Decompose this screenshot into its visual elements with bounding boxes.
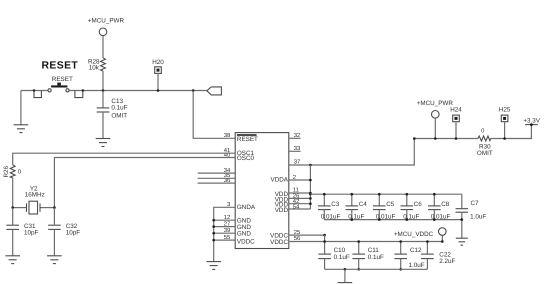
resistor R26 [3,165,22,208]
wire pin 36 stub [198,182,236,184]
power +MCU_PWR [88,17,125,58]
capacitor C5 [373,193,396,221]
svg-text:C12: C12 [410,247,422,254]
wire crystal right [40,207,54,209]
wire OSC1 pin 41 [13,153,236,165]
wire pin 39 stub [214,232,236,234]
node junction gnd bus 39 [212,232,215,235]
svg-text:OSC0: OSC0 [237,155,255,162]
svg-text:1.0uF: 1.0uF [470,213,486,220]
power +MCU_VDDC [394,228,446,243]
mounting hole H20 [152,59,164,91]
capacitor C6 [401,193,423,221]
wire crystal left [13,207,27,209]
wire power rail right [491,125,532,139]
svg-text:0.1uF: 0.1uF [334,254,350,261]
capacitor C13 [97,91,128,139]
ground [96,139,111,147]
wire pin 11 stub [289,192,311,194]
node junction bus pin26 [309,197,312,200]
wire pin 32 stub [289,137,301,139]
wire cap rail top [310,193,461,195]
svg-text:0.01uF: 0.01uF [321,213,341,220]
node junction crystal left [11,206,14,209]
capacitor C11 [352,240,384,270]
node junction gnd bus 55 [212,239,215,242]
svg-text:H20: H20 [152,59,164,66]
svg-text:VDD: VDD [275,207,289,214]
node junction bus pin2 [309,179,312,182]
node junction rail corner [413,137,416,140]
ground [47,256,62,264]
wire reset net horizontal [21,90,48,92]
connector tag RESET net [207,87,222,95]
capacitor C10 [318,235,350,269]
svg-text:RESET: RESET [42,60,79,71]
resistor R28 [88,58,105,91]
wire pin 2 stub [289,179,311,181]
node junction reset branch [192,89,195,92]
node junction bus top [309,164,312,167]
capacitor C8 [428,193,451,221]
ground [456,238,468,245]
wire pin 35 stub [198,177,236,179]
wire GNDA pin 3 [214,207,236,261]
wire reset to pin 38 [193,91,235,139]
wire OSC0 pin 40 [54,158,235,208]
svg-text:10k: 10k [89,64,100,71]
wire ground drop [344,269,346,282]
wire pin 55 stub [214,239,236,241]
wire pin 25 stub [289,234,325,236]
node junction bus pin42 [309,202,312,205]
node junction bus pin11 [309,192,312,195]
svg-text:C7: C7 [471,200,480,207]
svg-text:RESET: RESET [52,76,73,83]
svg-text:10pF: 10pF [24,230,39,237]
power +MCU_PWR [417,100,454,140]
svg-text:0.1uF: 0.1uF [368,254,384,261]
capacitor C4 [346,193,368,221]
capacitor C12 [394,240,424,270]
svg-text:C5: C5 [386,201,395,208]
svg-text:2.2uF: 2.2uF [439,258,455,265]
power +3.3V [523,118,540,126]
svg-text:VDDC: VDDC [237,238,255,245]
svg-text:10pF: 10pF [66,230,81,237]
svg-text:0.1uF: 0.1uF [111,104,127,111]
wire pin 26 stub [289,197,311,199]
node junction C13 [102,89,105,92]
node junction H20 [157,89,160,92]
svg-text:+MCU_PWR: +MCU_PWR [88,17,125,24]
svg-text:+MCU_VDDC: +MCU_VDDC [394,231,434,238]
wire VDDC rail [289,235,443,241]
svg-text:1.0uF: 1.0uF [409,262,425,269]
wire pin 27 stub [214,226,236,228]
node junction bus rail [309,193,312,196]
ground [14,91,29,133]
node junction gnd bus 27 [212,225,215,228]
svg-text:RESET: RESET [237,136,258,143]
svg-text:OMIT: OMIT [111,112,127,119]
svg-text:H24: H24 [450,106,462,113]
capacitor C22 [421,240,455,269]
svg-text:GNDA: GNDA [237,204,256,211]
svg-text:GND: GND [237,231,251,238]
mounting hole H25 [499,106,511,139]
node junction pin25 corner [323,234,326,237]
wire VDD bus vertical [309,165,311,209]
svg-text:OMIT: OMIT [477,150,493,157]
svg-text:16MHz: 16MHz [25,192,45,199]
node junction crystal right [53,206,56,209]
capacitor C7 [456,194,487,238]
node junction gnd bus 12 [212,219,215,222]
wire cap rail bottom [324,219,462,221]
capacitor C32 [48,223,80,256]
wire caps bottom rail [325,268,428,270]
crystal Y2 [25,185,45,214]
switch S1 pushbutton RESET [33,83,84,98]
wire pin 42 stub [289,203,311,205]
svg-text:C3: C3 [331,201,340,208]
capacitor C31 [6,208,38,256]
wire pin 12 stub [214,219,236,221]
ground [5,256,20,264]
wire pin 34 stub [198,172,236,174]
svg-text:C6: C6 [414,201,423,208]
ground [338,282,353,284]
svg-text:38: 38 [224,132,231,139]
wire C32 top [53,208,55,226]
svg-text:C4: C4 [359,201,368,208]
mounting hole H24 [450,106,462,139]
svg-text:C8: C8 [441,201,450,208]
resistor R30 [477,128,493,157]
wire power rail [414,138,478,140]
svg-text:+MCU_PWR: +MCU_PWR [417,100,454,107]
op-amp U1 MCU body [235,133,289,249]
node junction ground drop [344,268,347,271]
wire pin 37 to power rail [289,139,415,166]
wire pin 54 stub [289,208,311,210]
capacitor C3 [318,193,341,221]
pin label RESET with overbar [237,135,258,143]
wire between switch and C13/H20/tag [69,90,207,92]
svg-text:R26: R26 [3,165,10,177]
svg-text:VDDA: VDDA [271,177,289,184]
ground [206,262,221,270]
svg-text:VDDC: VDDC [270,239,288,246]
wire pin 33 stub [289,150,301,152]
svg-text:H25: H25 [499,106,511,113]
